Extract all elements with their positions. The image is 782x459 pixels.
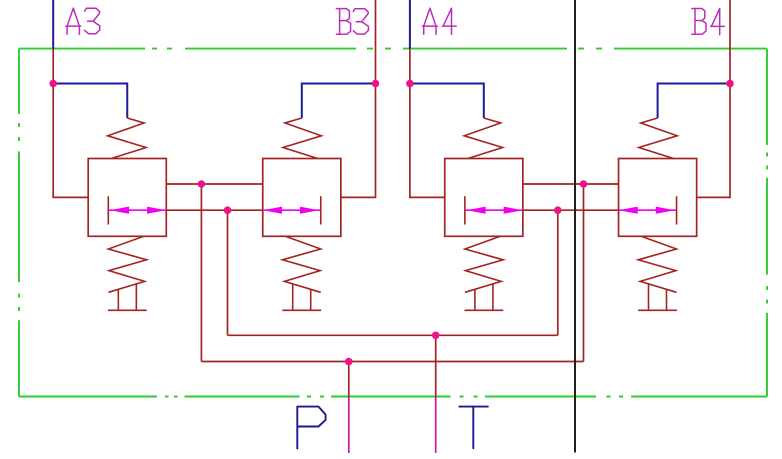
spring (return) of valve V1 bbox=[108, 236, 146, 292]
node upper tap A3/B3 bbox=[198, 180, 206, 188]
node P tap bbox=[345, 358, 353, 366]
pilot wire A3 to spring V1 bbox=[53, 84, 127, 119]
wire A4 riser (above border) bbox=[409, 0, 411, 49]
wire outer bus (P gallery) bbox=[201, 361, 583, 363]
wire A3 riser (above border) bbox=[52, 0, 54, 49]
valve V4 arrow toward seat bbox=[656, 207, 675, 214]
node lower tap A4/B4 bbox=[554, 206, 562, 214]
node A4 bbox=[406, 80, 414, 88]
node B4 bbox=[726, 80, 734, 88]
valve V2 arrow toward seat bbox=[300, 207, 319, 214]
valve V4 flow line bbox=[619, 209, 677, 211]
valve V1 arrow toward seat bbox=[110, 207, 129, 214]
wire B3 to valve V2 port bbox=[341, 84, 376, 198]
valve V2 seat bar bbox=[320, 196, 322, 224]
spring (pilot) of valve V1 A3 bbox=[108, 118, 146, 158]
valve V4 B4 body bbox=[619, 159, 697, 237]
node upper tap A4/B4 bbox=[580, 180, 588, 188]
spring (return) of valve V3 bbox=[465, 236, 503, 292]
wire upper link V1-V2 bbox=[166, 183, 262, 185]
wire P drop bbox=[348, 362, 350, 397]
wire tap to inner bus (pair A4/B4) bbox=[557, 210, 559, 335]
valve V1 A3 body bbox=[88, 159, 166, 237]
tank symbol under valve V3 bbox=[465, 284, 504, 310]
wire B4 to valve V4 port bbox=[697, 84, 730, 198]
manifold enclosure boundary (green phantom line) bbox=[19, 49, 767, 397]
wire T drop bbox=[435, 335, 437, 396]
valve V3 A4 body bbox=[445, 159, 523, 237]
port label B4 bbox=[692, 9, 725, 35]
valve V2 arrow outward bbox=[263, 207, 282, 214]
wire A4 to valve V3 port bbox=[410, 84, 445, 198]
spring (pilot) of valve V3 A4 bbox=[464, 118, 502, 158]
valve V3 arrow outward bbox=[504, 207, 523, 214]
port label T bbox=[459, 407, 488, 449]
wire lower link V1-V2 bbox=[166, 209, 262, 211]
valve V3 seat bar bbox=[464, 196, 466, 224]
node T tap bbox=[432, 332, 440, 340]
port label P bbox=[297, 407, 325, 449]
port label A4 bbox=[422, 8, 456, 34]
tank symbol under valve V2 bbox=[282, 284, 321, 310]
wire A3 riser (inside border) bbox=[52, 49, 54, 84]
wire B4 riser bbox=[729, 0, 731, 84]
wire tap to outer bus (pair A3/B3) bbox=[200, 184, 202, 362]
spring (pilot) of valve V4 B4 bbox=[639, 118, 677, 158]
tank symbol under valve V1 bbox=[108, 284, 147, 310]
port label A3 bbox=[66, 8, 100, 34]
valve V1 flow line bbox=[109, 209, 167, 211]
wire A3 to valve V1 port bbox=[53, 84, 88, 198]
wire lower link V3-V4 bbox=[523, 209, 619, 211]
node B3 bbox=[372, 80, 380, 88]
wire upper link V3-V4 bbox=[523, 183, 619, 185]
spring (pilot) of valve V2 B3 bbox=[283, 118, 321, 158]
valve V3 arrow toward seat bbox=[467, 207, 486, 214]
pilot wire B3 to spring V2 bbox=[302, 84, 376, 119]
valve V1 arrow outward bbox=[147, 207, 166, 214]
spring (return) of valve V2 bbox=[282, 236, 320, 292]
pilot wire A4 to spring V3 bbox=[410, 84, 484, 119]
pilot wire B4 to spring V4 bbox=[658, 84, 730, 119]
tank symbol under valve V4 bbox=[638, 284, 677, 310]
spring (return) of valve V4 bbox=[638, 236, 676, 292]
valve V4 arrow outward bbox=[619, 207, 638, 214]
valve V4 seat bar bbox=[676, 196, 678, 224]
valve V3 flow line bbox=[465, 209, 523, 211]
port label B3 bbox=[336, 9, 368, 35]
wire tap to outer bus (pair A4/B4) bbox=[583, 184, 585, 362]
valve V2 B3 body bbox=[263, 159, 341, 237]
node lower tap A3/B3 bbox=[224, 206, 232, 214]
section divider line bbox=[574, 0, 576, 453]
valve V1 seat bar bbox=[107, 196, 109, 224]
node A3 bbox=[49, 80, 57, 88]
valve V2 flow line bbox=[263, 209, 321, 211]
wire A4 riser (inside border) bbox=[409, 49, 411, 84]
wire tap to inner bus (pair A3/B3) bbox=[227, 210, 229, 335]
wire B3 riser bbox=[375, 0, 377, 84]
wire inner bus (T gallery) bbox=[228, 334, 558, 336]
